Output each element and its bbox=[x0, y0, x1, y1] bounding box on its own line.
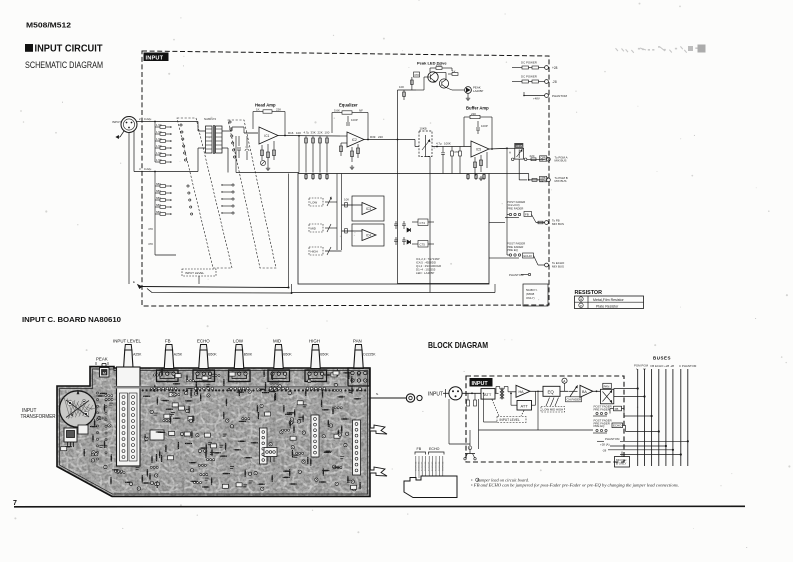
block wire FB to bus bbox=[622, 408, 625, 410]
transistor Q2 bbox=[439, 79, 448, 88]
wire buffer to pan bbox=[507, 147, 515, 149]
svg-text:4.7μ: 4.7μ bbox=[304, 130, 310, 134]
wire pan out B bbox=[529, 179, 545, 181]
block LOW MID HIGH label bbox=[541, 407, 565, 413]
svg-text:5.6K: 5.6K bbox=[334, 108, 340, 112]
svg-text:BA: BA bbox=[582, 390, 587, 394]
diode D12 bbox=[407, 240, 411, 244]
svg-text:1.5K: 1.5K bbox=[156, 144, 162, 148]
EQ network sub-box bbox=[298, 174, 489, 285]
svg-text:1.5K: 1.5K bbox=[156, 130, 162, 134]
pcb board outline bbox=[57, 367, 370, 497]
svg-text:Plate Resistor: Plate Resistor bbox=[596, 304, 619, 308]
block pan outputs to buses bbox=[614, 388, 638, 390]
resistor R52 buffer input bbox=[451, 147, 453, 152]
pcb pin column left of input level pot bbox=[96, 392, 107, 460]
svg-text:1K: 1K bbox=[256, 107, 260, 111]
INPUT tag on schematic frame bbox=[144, 53, 169, 62]
svg-text:D2225K: D2225K bbox=[363, 353, 376, 357]
svg-text:0.22μ: 0.22μ bbox=[144, 117, 152, 121]
legend metal film resistor row bbox=[579, 297, 583, 301]
IC strip DIP column 1 bbox=[311, 415, 319, 457]
svg-text:INPUT CIRCUIT: INPUT CIRCUIT bbox=[35, 44, 103, 55]
block fader symbol bbox=[569, 390, 578, 392]
svg-text:DC POWER: DC POWER bbox=[521, 75, 537, 79]
wire transformer primary top bbox=[176, 121, 198, 123]
svg-text:IC5: IC5 bbox=[476, 147, 481, 151]
svg-text:DC POWER: DC POWER bbox=[521, 61, 537, 65]
svg-text:PEAK: PEAK bbox=[96, 357, 108, 362]
pcb scattered resistor marks bbox=[61, 369, 362, 491]
wire transformer primary bottom bbox=[176, 171, 198, 173]
input transformer circle on pcb bbox=[59, 391, 95, 427]
svg-text:N.: N. bbox=[376, 392, 379, 396]
svg-text:M508/M512: M508/M512 bbox=[26, 23, 71, 30]
svg-text:7: 7 bbox=[13, 500, 17, 507]
svg-text:PRE FADER: PRE FADER bbox=[594, 407, 610, 411]
block diagram dashed frame bbox=[466, 376, 624, 462]
gyrator op-amp IC4 cell bbox=[352, 224, 384, 246]
svg-text:2.2K: 2.2K bbox=[436, 63, 442, 67]
FB send label box bbox=[524, 212, 532, 217]
equalizer output wire bbox=[364, 139, 398, 141]
INPUT LEVEL dashed label bbox=[182, 269, 216, 276]
wire +28 feed to peak bbox=[451, 68, 453, 71]
block power note box bbox=[615, 457, 630, 468]
svg-text:22K: 22K bbox=[318, 130, 323, 134]
equalizer feedback loop bbox=[332, 112, 342, 114]
svg-text:INPUT C. BOARD NA80610: INPUT C. BOARD NA80610 bbox=[22, 317, 121, 324]
svg-text:B ONLY: B ONLY bbox=[616, 462, 626, 466]
svg-text:M: M bbox=[103, 371, 106, 376]
block PAN box bbox=[603, 383, 612, 388]
svg-text:680: 680 bbox=[156, 182, 161, 186]
svg-text:FB: FB bbox=[417, 447, 422, 451]
svg-text:BLOCK DIAGRAM: BLOCK DIAGRAM bbox=[428, 341, 488, 350]
op-amp IC5 buffer bbox=[471, 141, 489, 157]
ground equalizer bbox=[351, 165, 353, 167]
capacitor C75 boxed bbox=[418, 241, 428, 248]
svg-text:POST FAD: POST FAD bbox=[438, 461, 441, 471]
LOW pot dashed box bbox=[309, 198, 323, 206]
svg-text:C74: C74 bbox=[420, 221, 426, 225]
svg-text:Metal Film Resistor: Metal Film Resistor bbox=[593, 298, 625, 302]
capacitor C88A boxed label bbox=[540, 156, 547, 161]
wire send feed vertical bbox=[506, 148, 508, 255]
pad switch wafer dashed outline 1 bbox=[177, 118, 232, 268]
bus vertical lines bbox=[638, 369, 688, 466]
svg-text:FB: FB bbox=[165, 339, 171, 344]
svg-text:MIX BUS: MIX BUS bbox=[552, 264, 564, 268]
wire peak drive feed bbox=[398, 89, 417, 91]
svg-text:NF: NF bbox=[359, 108, 363, 112]
svg-text:ATT: ATT bbox=[484, 392, 492, 397]
svg-text:ECHO: ECHO bbox=[524, 254, 533, 258]
svg-text:BUSES: BUSES bbox=[653, 356, 671, 361]
svg-text:10KB: 10KB bbox=[420, 127, 427, 131]
wire main to fader bbox=[398, 139, 416, 141]
svg-text:INPUT: INPUT bbox=[146, 55, 164, 61]
components on subbox top rail bbox=[305, 174, 307, 181]
terminal -28V bbox=[545, 80, 549, 84]
svg-text:FB: FB bbox=[615, 407, 619, 411]
svg-text:Buffer Amp: Buffer Amp bbox=[466, 106, 489, 111]
block wire ha to eq bbox=[530, 390, 543, 392]
ECHO send label box bbox=[523, 253, 534, 258]
LED PEAK indicator bbox=[446, 88, 452, 91]
HIGH pot dashed box bbox=[309, 247, 323, 255]
PAN potentiometer bbox=[354, 350, 364, 369]
svg-text:POST FAD: POST FAD bbox=[424, 461, 427, 471]
capacitor C12 eq top bbox=[347, 116, 349, 122]
resistor R5 on secondary bbox=[243, 127, 245, 133]
svg-text:MID: MID bbox=[311, 227, 316, 231]
svg-text:RESISTOR: RESISTOR bbox=[575, 290, 603, 296]
wire pan out B drop bbox=[518, 159, 520, 180]
wire subbox rail to pgm b bbox=[489, 173, 529, 175]
block transformer symbol bbox=[495, 392, 499, 394]
svg-text:PHANTOM: PHANTOM bbox=[605, 437, 620, 441]
coupling parts to equalizer bbox=[305, 136, 307, 146]
svg-text:B50K: B50K bbox=[283, 353, 292, 357]
HIGH potentiometer bbox=[311, 350, 321, 369]
terminal +28V bbox=[545, 66, 549, 70]
svg-text:LOW: LOW bbox=[311, 201, 318, 205]
terminal To FB MIX BUS bbox=[545, 221, 549, 225]
block wire ECHO to bus bbox=[623, 424, 626, 426]
svg-text:PRE EQ: PRE EQ bbox=[507, 248, 519, 252]
wire secondary to head amp bbox=[244, 132, 258, 134]
terminal To PGM A MIX BUS bbox=[547, 157, 551, 161]
wire XLR pin3 to pad lower bbox=[134, 171, 176, 173]
trimmer VR1 bbox=[260, 160, 265, 165]
ground head amp bbox=[267, 166, 269, 168]
svg-text:B50K: B50K bbox=[244, 353, 253, 357]
svg-text:22K: 22K bbox=[471, 112, 476, 116]
svg-text:Equalizer: Equalizer bbox=[339, 103, 358, 108]
IC strip DIP column 3 bbox=[260, 428, 268, 464]
svg-text:INPUT LEVEL: INPUT LEVEL bbox=[500, 418, 521, 422]
svg-text:POST FAD: POST FAD bbox=[418, 461, 421, 471]
svg-text:FB ECHO +28 -28: FB ECHO +28 -28 bbox=[651, 364, 675, 368]
wire XLR pin2 to pad bbox=[137, 121, 176, 123]
block wire eq to fader bbox=[560, 390, 568, 392]
LOW potentiometer bbox=[234, 350, 244, 369]
ground buffer bbox=[480, 176, 482, 178]
svg-text:HA: HA bbox=[519, 390, 525, 394]
svg-text:PAN: PAN bbox=[604, 384, 610, 388]
svg-text:HIGH: HIGH bbox=[311, 250, 318, 254]
pan jumper pads bbox=[511, 158, 514, 161]
pcb eyelet wire bbox=[370, 397, 406, 399]
capacitor C8 input bbox=[246, 136, 248, 146]
wire XLR pin3 down bbox=[133, 130, 135, 172]
wire fader bottom drop x430 bbox=[429, 157, 431, 293]
pan pot box bbox=[515, 148, 524, 159]
legend plate resistor row bbox=[579, 303, 583, 307]
svg-text:POST FAD: POST FAD bbox=[428, 461, 431, 471]
ground LED bbox=[467, 93, 469, 96]
svg-text:10K: 10K bbox=[399, 85, 404, 89]
svg-text:• FB and ECHO can be jumpered: • FB and ECHO can be jumpered for post-F… bbox=[471, 483, 679, 488]
svg-text:22K: 22K bbox=[276, 107, 281, 111]
buffer feedback loop bbox=[464, 116, 470, 118]
svg-text:100P: 100P bbox=[481, 124, 488, 128]
gyrator op-amp IC3 cell bbox=[352, 196, 384, 221]
svg-text:-28: -28 bbox=[552, 80, 557, 84]
svg-text:PAN: PAN bbox=[353, 339, 362, 344]
head amp feedback loop wires bbox=[253, 111, 263, 113]
pcb pad row under pots bbox=[142, 389, 367, 391]
wire eq subbox rail drop 2 bbox=[341, 174, 343, 251]
svg-text:CH FADER: CH FADER bbox=[567, 398, 582, 402]
svg-text:IC1: IC1 bbox=[264, 134, 269, 138]
INPUT tag block diagram bbox=[470, 378, 493, 387]
svg-text:LA205P: LA205P bbox=[473, 89, 483, 93]
svg-text:1.5K: 1.5K bbox=[156, 151, 162, 155]
svg-text:1.5K: 1.5K bbox=[156, 158, 162, 162]
pad switch wafer dashed outline 2 bbox=[228, 120, 276, 268]
svg-text:Peak LED Drive: Peak LED Drive bbox=[417, 61, 447, 66]
pad switch contacts upper bbox=[180, 124, 182, 126]
svg-text:INPUT: INPUT bbox=[112, 120, 121, 124]
svg-text:680: 680 bbox=[156, 210, 161, 214]
INPUT LEVEL potentiometer bbox=[124, 350, 134, 369]
wire FB send out bbox=[532, 215, 537, 223]
capacitor C7 input bbox=[238, 136, 240, 146]
op-amp IC2 equalizer bbox=[347, 132, 364, 147]
rail left arrow bbox=[138, 285, 143, 289]
svg-text:PHANTOM: PHANTOM bbox=[552, 94, 567, 98]
svg-text:A25K: A25K bbox=[174, 353, 183, 357]
head amp bias components bbox=[261, 145, 263, 160]
svg-text:MID: MID bbox=[273, 339, 281, 344]
svg-text:0.22μ: 0.22μ bbox=[144, 167, 152, 171]
svg-text:ECHO: ECHO bbox=[197, 339, 210, 344]
wire buffer bias to rail bbox=[442, 160, 444, 174]
connector lug upper bbox=[370, 425, 387, 434]
svg-text:+48V: +48V bbox=[533, 97, 540, 101]
terminal PHANTOM bbox=[524, 95, 545, 97]
svg-text:47K: 47K bbox=[148, 227, 153, 231]
eq input components bbox=[340, 135, 347, 137]
svg-text:47K: 47K bbox=[148, 242, 153, 246]
svg-text:680: 680 bbox=[156, 203, 161, 207]
transistor pads cluster bbox=[264, 448, 277, 457]
svg-text:IC4: IC4 bbox=[366, 233, 371, 237]
wire schematic bottom rail 2 bbox=[147, 289, 292, 294]
buffer cap C31 bbox=[477, 121, 479, 127]
block feedback rail from ha bbox=[537, 391, 539, 430]
schematic boundary dashed box bbox=[142, 51, 549, 306]
block C bus row bbox=[620, 454, 681, 456]
svg-text:MIX BUS: MIX BUS bbox=[552, 222, 564, 226]
terminal To PGM B MIX BUS bbox=[547, 178, 551, 182]
block XLR connector bbox=[449, 387, 462, 400]
connector lug lower bbox=[370, 467, 387, 476]
svg-text:SCHEMATIC DIAGRAM: SCHEMATIC DIAGRAM bbox=[25, 60, 103, 70]
wire subbox to jumpers bbox=[489, 222, 505, 224]
pad contacts mid block bbox=[232, 184, 234, 186]
block cap symbols at input bbox=[467, 393, 469, 400]
svg-text:1.5K: 1.5K bbox=[156, 137, 162, 141]
wire ECHO send out bbox=[534, 256, 539, 266]
wire pad bus bottom bbox=[154, 214, 156, 255]
pad resistor ladder lower bbox=[155, 185, 160, 187]
head amp output wire bbox=[278, 135, 340, 138]
svg-text:680: 680 bbox=[156, 196, 161, 200]
RESISTOR legend table bbox=[575, 296, 644, 309]
svg-text:100: 100 bbox=[296, 131, 301, 135]
op-amp IC1 head amp bbox=[259, 127, 278, 144]
svg-text:PRE EQ: PRE EQ bbox=[594, 424, 606, 428]
block ATT box 1 bbox=[481, 389, 495, 400]
wire subbox bottom to phantom bbox=[398, 283, 490, 285]
block circled A bbox=[562, 378, 567, 383]
svg-text:-28: -28 bbox=[602, 448, 607, 452]
svg-text:+28: +28 bbox=[552, 66, 558, 70]
transistor Q1 bbox=[428, 72, 438, 82]
wire schematic bottom rail 1 bbox=[142, 287, 289, 288]
capacitor C88B boxed label bbox=[540, 176, 547, 181]
svg-text:MIX BUS: MIX BUS bbox=[555, 179, 567, 183]
M508 only note box bbox=[523, 284, 548, 306]
svg-text:LED : LA205P: LED : LA205P bbox=[416, 271, 434, 275]
svg-text:C75: C75 bbox=[420, 242, 426, 246]
capacitor C30 fader output bbox=[442, 147, 444, 153]
resistor R11 feedback bbox=[263, 110, 272, 113]
svg-text:1K: 1K bbox=[452, 69, 456, 73]
svg-text:A: A bbox=[509, 151, 511, 155]
buffer output wire bbox=[489, 147, 507, 150]
block pan crossfade box bbox=[601, 389, 614, 404]
block EQ box bbox=[543, 386, 560, 396]
svg-text:A25K: A25K bbox=[133, 353, 142, 357]
svg-text:R16: R16 bbox=[288, 131, 294, 135]
svg-text:PRE FADER: PRE FADER bbox=[507, 207, 523, 211]
svg-text:ECHO: ECHO bbox=[613, 424, 622, 428]
svg-text:47K: 47K bbox=[414, 73, 419, 77]
wire eq subbox rail drop 1 bbox=[336, 174, 338, 251]
pad switch contacts lower bbox=[187, 185, 189, 187]
svg-text:P: P bbox=[580, 304, 582, 308]
block FB label box bbox=[614, 406, 622, 411]
faint stamp top right bbox=[616, 45, 706, 53]
capacitor C74 boxed bbox=[418, 219, 428, 226]
svg-text:FB: FB bbox=[525, 212, 529, 216]
svg-text:100: 100 bbox=[325, 130, 330, 134]
resistor R24 eq feedback bbox=[342, 111, 352, 114]
svg-text:POST FAD: POST FAD bbox=[414, 461, 417, 471]
relay block bbox=[150, 430, 164, 440]
component block small square bbox=[78, 425, 88, 434]
eq bias network bbox=[351, 147, 353, 162]
svg-text:R39: R39 bbox=[370, 135, 376, 139]
svg-text:ECHO: ECHO bbox=[429, 447, 440, 451]
resistor R53 buffer input bbox=[459, 147, 461, 152]
terminal To ECHO MIX BUS bbox=[545, 263, 549, 267]
svg-text:100K: 100K bbox=[444, 142, 451, 146]
pcb pad rows under pots bbox=[158, 387, 326, 390]
tall vertical wire x397 bbox=[397, 90, 399, 284]
pcb trace band under pots bbox=[114, 386, 348, 389]
rail junction verticals bbox=[288, 287, 290, 289]
svg-text:HIGH: HIGH bbox=[309, 339, 320, 344]
block ECHO label box bbox=[612, 423, 623, 428]
svg-text:LOW MID HIGH: LOW MID HIGH bbox=[543, 408, 564, 412]
ECHO potentiometer bbox=[199, 350, 209, 369]
wire fader to buffer bbox=[432, 146, 471, 148]
svg-text:10KB: 10KB bbox=[515, 144, 522, 148]
svg-text:IC2: IC2 bbox=[352, 138, 357, 142]
block wire shield to ground bbox=[448, 399, 450, 444]
svg-text:EQ: EQ bbox=[548, 390, 555, 395]
block BA amp triangle bbox=[580, 385, 593, 397]
svg-text:POST FAD: POST FAD bbox=[441, 461, 444, 471]
svg-text:680: 680 bbox=[156, 189, 161, 193]
svg-text:+28 (A): +28 (A) bbox=[600, 443, 610, 447]
svg-text:LOW: LOW bbox=[233, 339, 244, 344]
pan pot label box bbox=[514, 143, 523, 148]
svg-text:TRANSFORMER: TRANSFORMER bbox=[21, 414, 56, 420]
svg-text:PHANTOM: PHANTOM bbox=[509, 273, 524, 277]
buffer bias components bbox=[474, 157, 476, 176]
peak drive input components bbox=[403, 90, 405, 100]
wire transformer secondary bottom bbox=[222, 147, 228, 149]
svg-text:C PHANTOM: C PHANTOM bbox=[679, 364, 697, 368]
block wire ba to pan bbox=[593, 390, 601, 392]
svg-text:ATT: ATT bbox=[521, 403, 529, 408]
wire pan out A bbox=[527, 158, 545, 160]
pad resistor ladder upper bbox=[155, 126, 160, 128]
small daughter board outline bbox=[404, 476, 457, 498]
svg-text:220: 220 bbox=[378, 135, 383, 139]
block EQ slider arrows bbox=[546, 398, 550, 407]
transformer terminal block bbox=[64, 428, 77, 442]
mid band capacitors cluster bbox=[395, 221, 397, 224]
svg-text:220: 220 bbox=[530, 154, 535, 158]
svg-text:33K: 33K bbox=[311, 130, 316, 134]
block INPUT LEVEL dashed label bbox=[497, 417, 526, 423]
svg-text:INPUT: INPUT bbox=[22, 408, 37, 414]
svg-text:MIX BUS: MIX BUS bbox=[555, 159, 567, 163]
section heading INPUT CIRCUIT bbox=[25, 44, 33, 52]
svg-text:ONLY): ONLY) bbox=[526, 296, 535, 300]
wire lower rail extension bbox=[292, 292, 496, 294]
svg-text:B50K: B50K bbox=[320, 353, 329, 357]
XLR input connector J1 bbox=[121, 117, 137, 133]
MID pot dashed box bbox=[309, 224, 323, 232]
svg-text:POST FAD: POST FAD bbox=[435, 461, 438, 471]
svg-text:E: E bbox=[133, 280, 135, 284]
wire transformer secondary top bbox=[222, 130, 232, 132]
svg-text:INPUT LEVEL: INPUT LEVEL bbox=[185, 271, 204, 275]
svg-text:10K: 10K bbox=[344, 198, 349, 202]
IC strip DIP column 2 bbox=[353, 420, 361, 475]
peak drive resistors upper bbox=[436, 67, 442, 70]
svg-text:POST FAD: POST FAD bbox=[431, 461, 434, 471]
svg-text:IC3: IC3 bbox=[366, 207, 371, 211]
wire head amp rail bbox=[236, 172, 299, 174]
svg-text:B50K: B50K bbox=[208, 353, 217, 357]
svg-text:100P: 100P bbox=[351, 118, 358, 122]
svg-text:INPUT: INPUT bbox=[472, 381, 489, 387]
svg-text:NA80172: NA80172 bbox=[204, 117, 216, 121]
diode D11 bbox=[407, 228, 411, 232]
pad switch contacts column 2 bbox=[229, 121, 231, 123]
block ATT box 2 bbox=[517, 401, 532, 411]
wire shield ground drop bbox=[128, 133, 130, 285]
